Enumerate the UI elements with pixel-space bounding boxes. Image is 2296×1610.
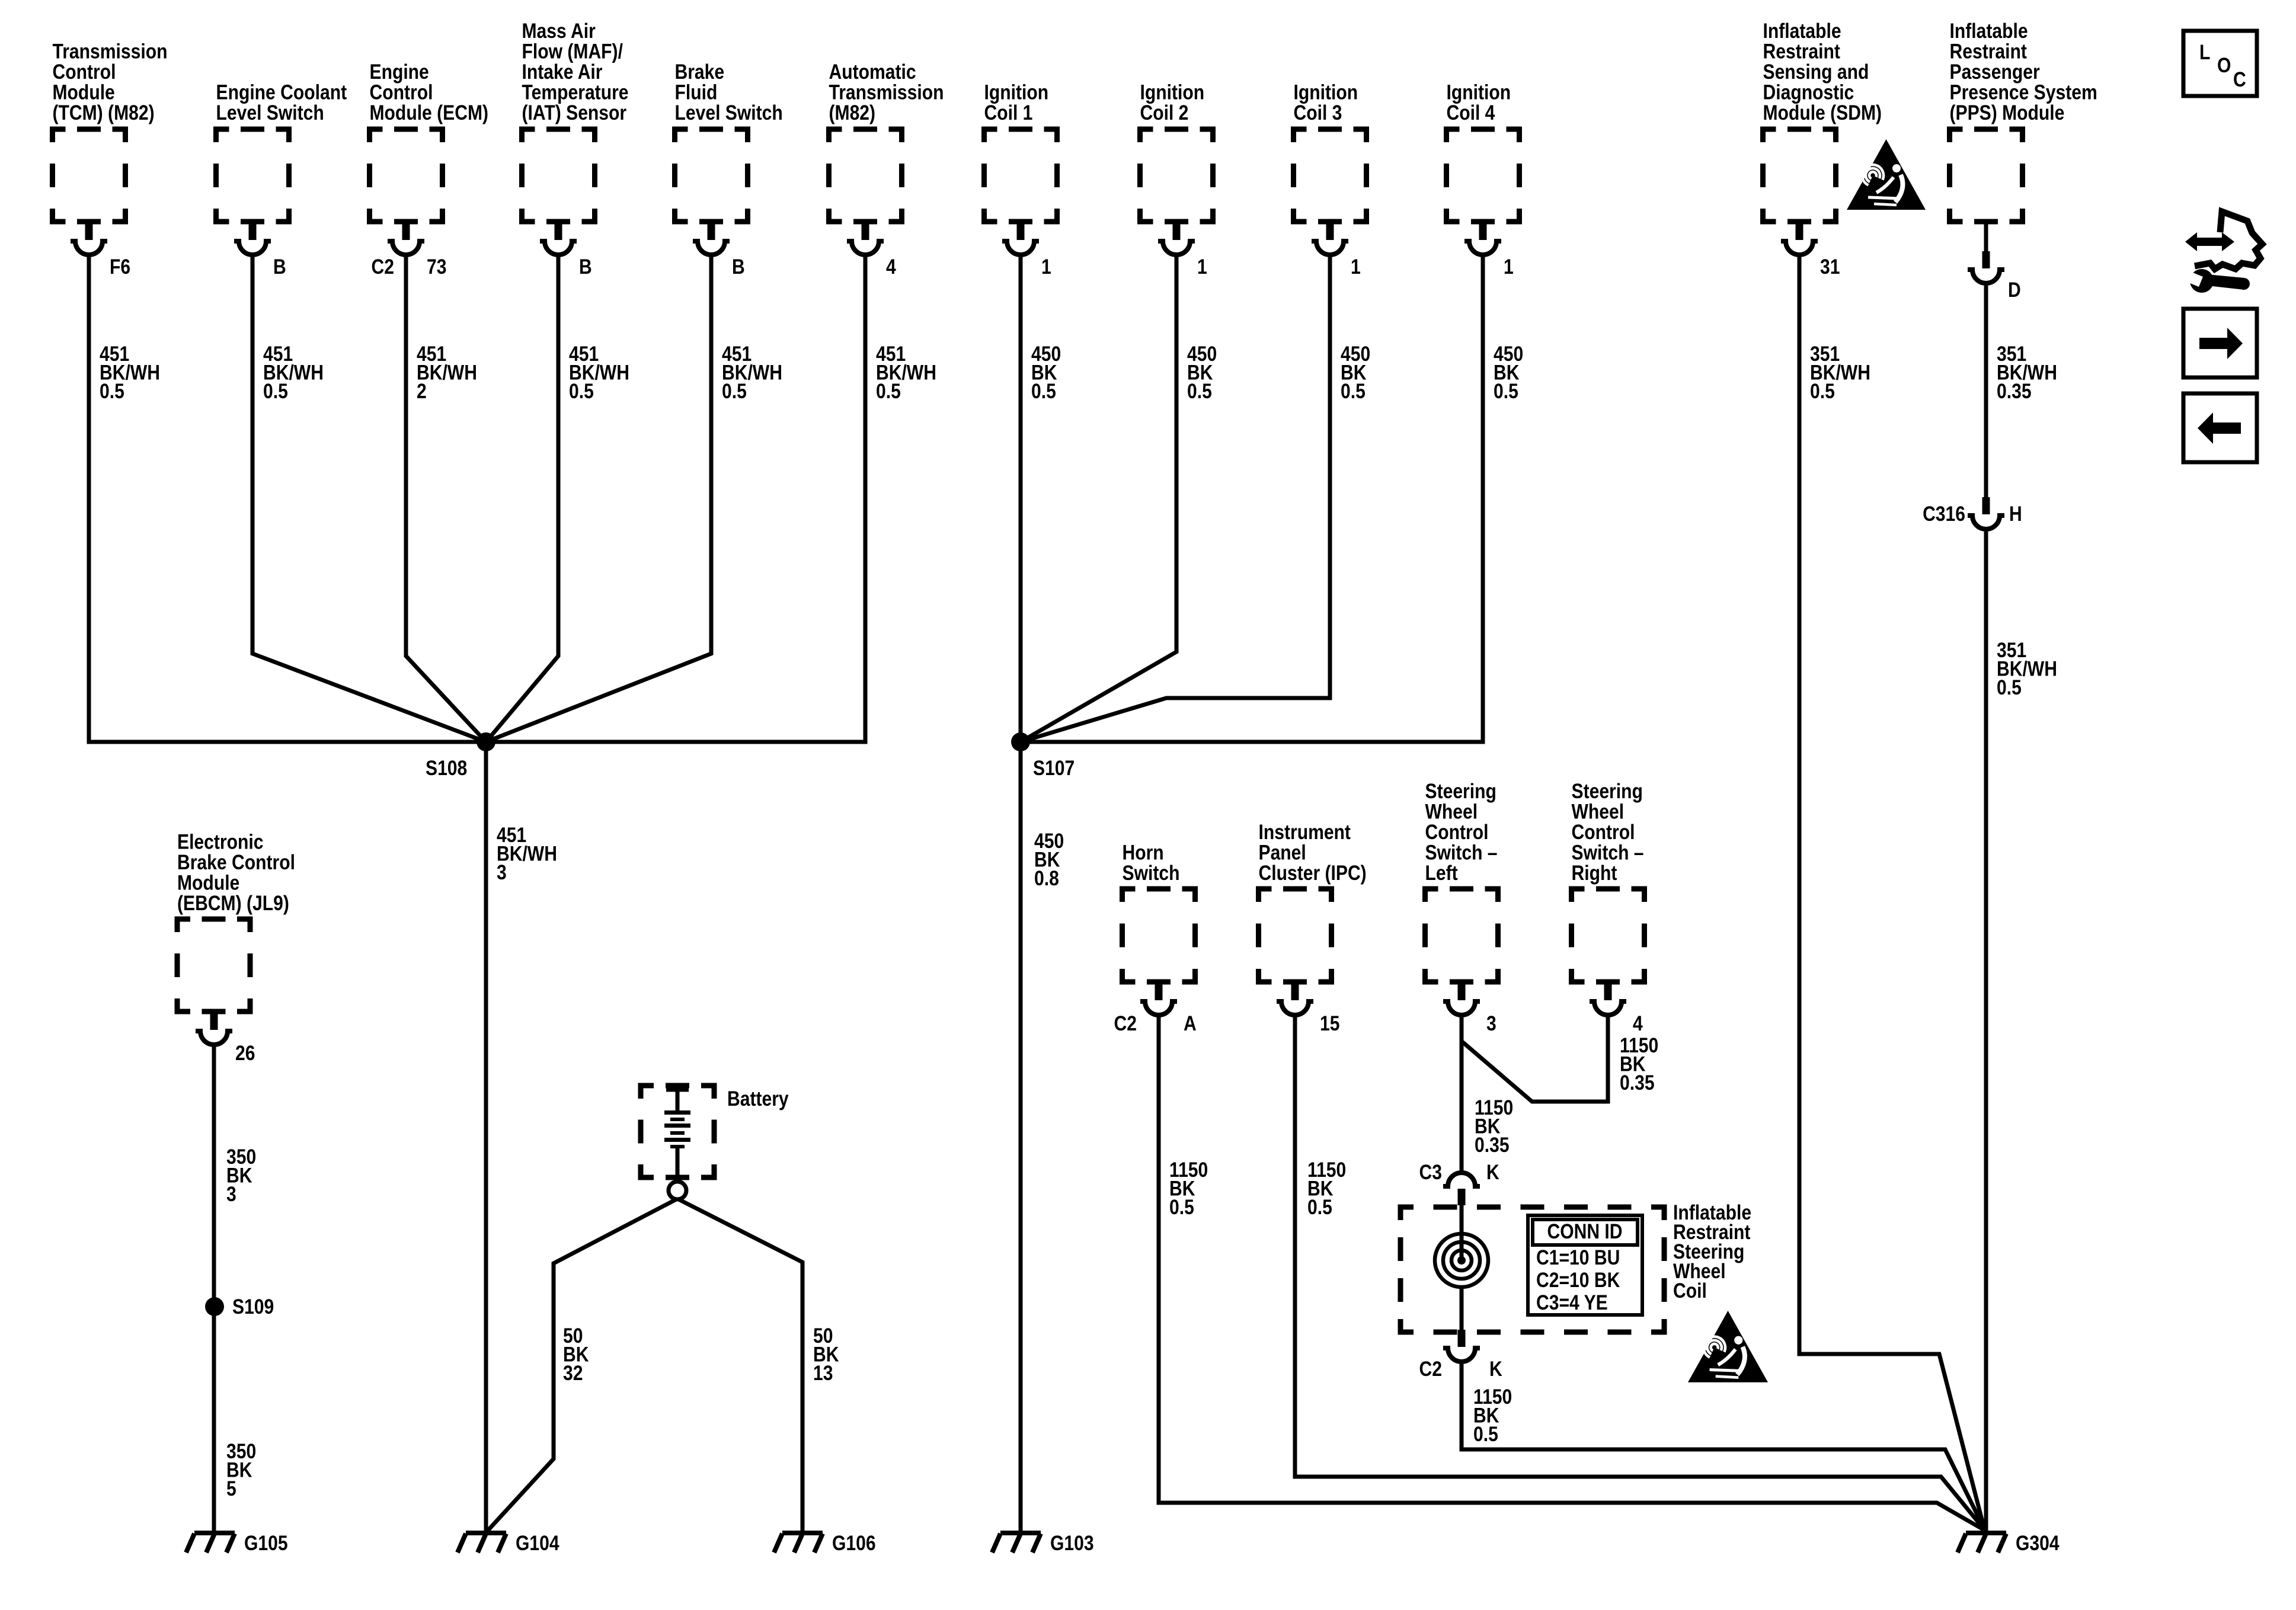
svg-text:0.35: 0.35 <box>1620 1071 1655 1094</box>
svg-text:0.5: 0.5 <box>569 379 594 403</box>
wire 451 BK/WH MAF to S108 <box>486 257 558 742</box>
svg-text:1: 1 <box>1041 255 1051 279</box>
svg-text:2: 2 <box>417 379 427 403</box>
wire 351 BK/WH 0.5 C316 to G304 <box>1984 532 1988 1532</box>
module HORN <box>1123 840 1195 982</box>
svg-text:A: A <box>1184 1012 1197 1035</box>
svg-text:Coil: Coil <box>1673 1279 1707 1302</box>
connector pin 31 of SDM <box>1781 222 1840 279</box>
wire 451 BK/WH TCM to S108 (bus left arm) <box>89 257 486 742</box>
wire label 450 BK 0.5 <box>1031 342 1061 403</box>
svg-text:C3=4 YE: C3=4 YE <box>1536 1291 1608 1314</box>
svg-text:G104: G104 <box>516 1531 559 1555</box>
svg-text:Coil 1: Coil 1 <box>984 101 1033 124</box>
CONN ID table <box>1528 1215 1642 1315</box>
svg-text:S107: S107 <box>1033 756 1075 780</box>
svg-text:0.5: 0.5 <box>1187 379 1212 403</box>
svg-text:3: 3 <box>226 1182 236 1206</box>
module IPC <box>1259 820 1367 982</box>
connector pin 4 of SWR <box>1590 982 1643 1035</box>
connector C316 pin H <box>1923 497 2022 529</box>
splice S109 <box>205 1295 274 1318</box>
svg-text:B: B <box>273 255 286 279</box>
svg-text:(IAT) Sensor: (IAT) Sensor <box>522 101 627 124</box>
svg-text:(PPS) Module: (PPS) Module <box>1950 101 2065 124</box>
module ECLS <box>216 80 347 222</box>
svg-text:O: O <box>2217 53 2231 77</box>
wire 451 BK/WH ECM to S108 <box>406 257 486 742</box>
wire 1150 BK 0.5 horn switch to G304 <box>1159 1017 1984 1530</box>
splice S108 <box>426 732 495 780</box>
connector pin B of BFLS <box>693 222 745 279</box>
svg-text:C: C <box>2233 68 2246 91</box>
module PPS <box>1950 19 2097 222</box>
svg-text:73: 73 <box>427 255 446 279</box>
svg-text:(EBCM) (JL9): (EBCM) (JL9) <box>177 891 289 915</box>
svg-text:C2: C2 <box>1419 1357 1442 1381</box>
svg-text:26: 26 <box>235 1041 255 1065</box>
svg-text:0.35: 0.35 <box>1997 379 2032 403</box>
svg-text:0.5: 0.5 <box>263 379 288 403</box>
svg-text:F6: F6 <box>110 255 130 279</box>
wire 351 BK/WH 0.35 D to C316 <box>1984 286 1988 497</box>
svg-text:Level Switch: Level Switch <box>216 101 324 124</box>
svg-text:L: L <box>2199 40 2210 64</box>
wire 451 BK/WH AT to S108 (bus right arm) <box>486 257 865 742</box>
connector pin 73 of ECM <box>372 222 447 279</box>
connector pin 26 of EBCM <box>196 1012 255 1065</box>
wire label 351 BK/WH 0.5 <box>1810 342 1870 403</box>
svg-text:Cluster (IPC): Cluster (IPC) <box>1259 861 1367 885</box>
svg-text:B: B <box>579 255 592 279</box>
svg-text:Coil 3: Coil 3 <box>1294 101 1342 124</box>
svg-text:4: 4 <box>1633 1012 1643 1035</box>
svg-text:3: 3 <box>1486 1012 1496 1035</box>
wire 451 BK/WH BFLS to S108 <box>486 257 711 742</box>
airbag warning triangle (coil) <box>1688 1311 1768 1382</box>
wire 450 BK coil1 through S107 to G103 <box>1019 257 1023 1532</box>
svg-text:CONN ID: CONN ID <box>1547 1219 1622 1243</box>
svg-text:Coil 2: Coil 2 <box>1140 101 1189 124</box>
wire label 351 BK/WH 0.35 <box>1997 342 2057 403</box>
wire 351 BK/WH SDM to G304 <box>1799 257 1984 1529</box>
airbag warning triangle (SDM) <box>1847 139 1926 210</box>
inflatable restraint steering wheel coil (dashed box) <box>1400 1207 1664 1332</box>
wire label 451 BK/WH 2 <box>417 342 477 403</box>
svg-text:0.5: 0.5 <box>1341 379 1366 403</box>
wire label 451 BK/WH 0.5 <box>263 342 324 403</box>
svg-text:0.5: 0.5 <box>1169 1195 1194 1219</box>
connector pin 1 of IC3 <box>1312 222 1361 279</box>
wire label 450 BK 0.5 <box>1187 342 1217 403</box>
module IC2 <box>1140 80 1213 222</box>
ground G104 <box>458 1533 506 1553</box>
svg-text:0.35: 0.35 <box>1475 1133 1510 1157</box>
svg-text:15: 15 <box>1320 1012 1339 1035</box>
svg-text:0.5: 0.5 <box>100 379 124 403</box>
wire 450 BK coil2 to S107 <box>1021 257 1176 742</box>
label inflatable restraint steering wheel coil <box>1673 1201 1751 1302</box>
svg-text:Right: Right <box>1572 861 1617 885</box>
connector C3 pin K <box>1419 1160 1500 1205</box>
svg-text:1: 1 <box>1351 255 1361 279</box>
wire label 451 BK/WH 0.5 <box>100 342 160 403</box>
ground G105 <box>186 1533 235 1553</box>
connector pin B of MAF <box>540 222 592 279</box>
svg-text:G304: G304 <box>2016 1531 2060 1555</box>
svg-text:Switch: Switch <box>1123 861 1180 885</box>
svg-text:Left: Left <box>1425 861 1458 885</box>
svg-text:0.5: 0.5 <box>1307 1195 1332 1219</box>
coil spiral <box>1435 1204 1488 1332</box>
wire label 1150 BK 0.35 on merged wire <box>1475 1096 1513 1157</box>
svg-text:31: 31 <box>1820 255 1840 279</box>
wire 450 BK coil3 to S107 <box>1021 257 1330 742</box>
svg-text:G105: G105 <box>244 1531 288 1555</box>
svg-text:Module (SDM): Module (SDM) <box>1763 101 1882 124</box>
module AT <box>829 60 944 222</box>
svg-text:0.5: 0.5 <box>1810 379 1835 403</box>
svg-text:S108: S108 <box>426 756 467 780</box>
svg-text:0.5: 0.5 <box>722 379 747 403</box>
svg-text:3: 3 <box>497 860 507 884</box>
svg-text:C2: C2 <box>1114 1012 1137 1035</box>
harness/wrench icon <box>2183 212 2262 293</box>
connector C2 pin K below coil <box>1419 1330 1503 1381</box>
connector pin 15 of IPC <box>1277 982 1339 1035</box>
wire label 451 BK/WH 0.5 <box>876 342 936 403</box>
module IC4 <box>1447 80 1520 222</box>
wire 450 BK coil4 to S107 <box>1021 257 1483 742</box>
connector pin B of ECLS <box>234 222 286 279</box>
wire label 351 BK/WH 0.5 below C316 <box>1997 638 2057 699</box>
svg-text:0.5: 0.5 <box>1473 1422 1498 1446</box>
svg-text:G106: G106 <box>832 1531 876 1555</box>
wire 1150 BK 0.35 SWCS-Left to C3 <box>1460 1017 1464 1172</box>
connector pin 1 of IC1 <box>1002 222 1051 279</box>
wire 451 BK/WH ECLS to S108 <box>252 257 486 742</box>
LOC legend box <box>2183 31 2257 96</box>
wire label 450 BK 0.8 <box>1034 829 1064 890</box>
svg-text:0.8: 0.8 <box>1034 866 1059 890</box>
wire label 451 BK/WH 0.5 <box>569 342 629 403</box>
svg-text:C316: C316 <box>1923 502 1965 526</box>
module SWR <box>1572 779 1645 982</box>
wire label 451 BK/WH 0.5 <box>722 342 782 403</box>
wire 50 BK 32 battery to G104 <box>487 1199 677 1531</box>
svg-text:C2: C2 <box>372 255 394 279</box>
svg-text:1: 1 <box>1197 255 1207 279</box>
svg-text:4: 4 <box>886 255 896 279</box>
module MAF <box>522 19 629 222</box>
svg-text:0.5: 0.5 <box>1997 676 2022 699</box>
ground G103 <box>992 1533 1041 1553</box>
svg-text:1: 1 <box>1504 255 1514 279</box>
wire label 450 BK 0.5 <box>1341 342 1370 403</box>
inline connector pin D <box>1968 251 2021 302</box>
wire 451 BK/WH 3 S108 to G104 <box>486 742 557 1532</box>
legend arrow right box <box>2183 309 2257 377</box>
connector pin 1 of IC2 <box>1158 222 1207 279</box>
svg-text:0.5: 0.5 <box>1494 379 1518 403</box>
module SDM <box>1763 19 1882 222</box>
svg-text:G103: G103 <box>1050 1531 1094 1555</box>
wire 1150 BK 0.5 IPC to G304 <box>1295 1017 1984 1529</box>
svg-text:0.5: 0.5 <box>876 379 901 403</box>
svg-text:C3: C3 <box>1419 1160 1442 1184</box>
module ECM <box>370 60 489 222</box>
svg-text:32: 32 <box>563 1361 583 1385</box>
svg-text:(TCM) (M82): (TCM) (M82) <box>53 101 155 124</box>
wire 1150 BK 0.5 coil to G304 <box>1462 1364 1984 1529</box>
module SWL <box>1425 779 1498 982</box>
ground G106 <box>774 1533 823 1553</box>
legend arrow left box <box>2183 393 2257 462</box>
connector pin F6 of TCM <box>71 222 130 279</box>
battery <box>641 1086 789 1199</box>
module IC3 <box>1294 80 1367 222</box>
svg-text:B: B <box>732 255 745 279</box>
connector pin 1 of IC4 <box>1464 222 1514 279</box>
wire 1150 BK 0.35 SWCS-Right joins left <box>1462 1017 1658 1102</box>
wire PPS module to connector D <box>1984 222 1988 251</box>
wire 350 BK EBCM to G105 <box>214 1046 256 1532</box>
module TCM <box>53 39 168 222</box>
svg-text:K: K <box>1489 1357 1502 1381</box>
svg-text:K: K <box>1486 1160 1499 1184</box>
svg-text:H: H <box>2009 502 2022 526</box>
module BFLS <box>675 60 783 222</box>
svg-text:D: D <box>2008 278 2021 302</box>
svg-text:C1=10 BU: C1=10 BU <box>1536 1246 1620 1269</box>
svg-text:(M82): (M82) <box>829 101 876 124</box>
svg-text:5: 5 <box>226 1477 236 1500</box>
svg-text:C2=10 BK: C2=10 BK <box>1536 1268 1620 1292</box>
svg-text:Battery: Battery <box>727 1087 789 1110</box>
svg-text:Level Switch: Level Switch <box>675 101 783 124</box>
splice S107 <box>1011 732 1075 780</box>
wire label 450 BK 0.5 <box>1494 342 1523 403</box>
module EBCM (JL9) <box>177 830 295 1012</box>
connector pin 3 of SWL <box>1443 982 1496 1035</box>
svg-text:0.5: 0.5 <box>1031 379 1056 403</box>
svg-text:S109: S109 <box>232 1295 274 1318</box>
svg-text:13: 13 <box>813 1361 833 1385</box>
wire 50 BK 13 battery to G106 <box>677 1199 839 1532</box>
connector pin 4 of AT <box>847 222 896 279</box>
svg-text:Module (ECM): Module (ECM) <box>370 101 489 124</box>
connector pin A of HORN <box>1114 982 1197 1035</box>
svg-text:Coil 4: Coil 4 <box>1447 101 1495 124</box>
ground G304 <box>1958 1533 2006 1553</box>
module IC1 <box>984 80 1057 222</box>
